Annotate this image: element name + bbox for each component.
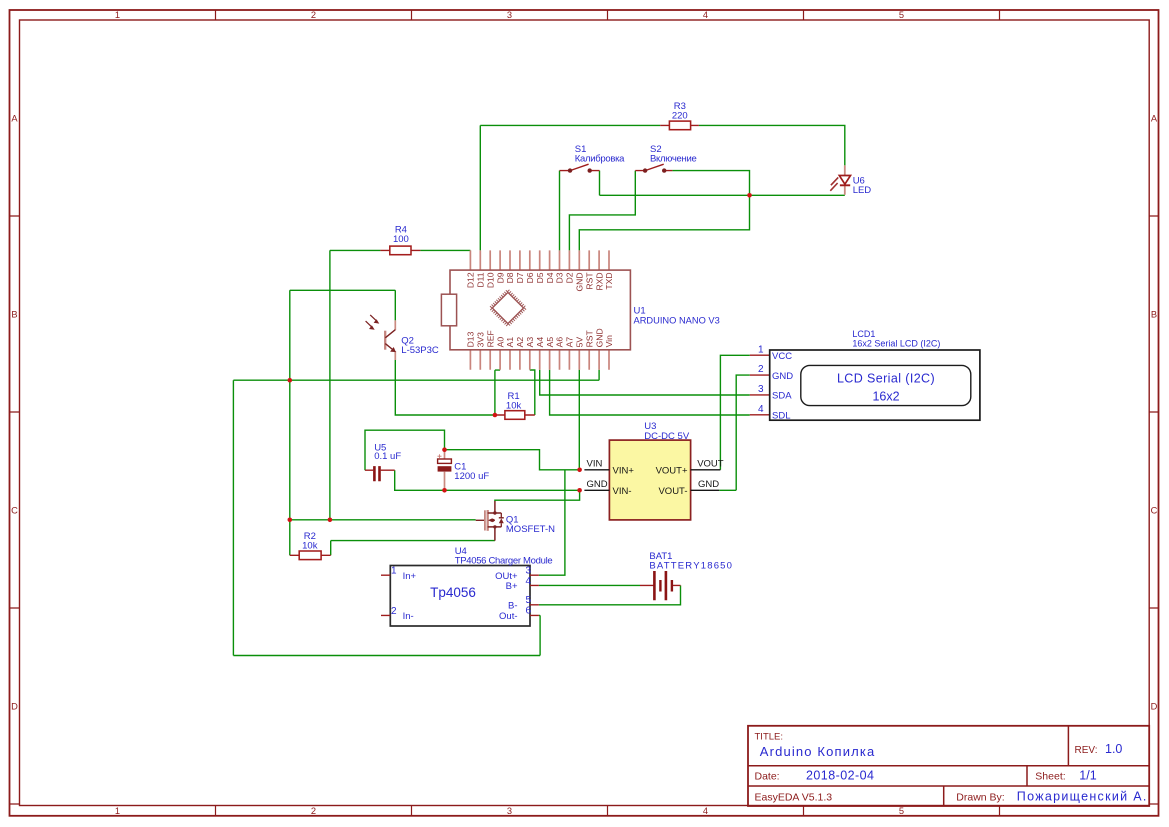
svg-text:3V3: 3V3	[476, 332, 486, 348]
svg-text:3: 3	[758, 384, 764, 395]
svg-text:2018-02-04: 2018-02-04	[806, 769, 874, 783]
svg-text:10k: 10k	[506, 400, 522, 411]
svg-text:MOSFET-N: MOSFET-N	[506, 524, 555, 535]
svg-text:A0: A0	[495, 337, 505, 348]
svg-text:5: 5	[525, 595, 531, 606]
svg-text:A5: A5	[545, 337, 555, 348]
svg-text:D3: D3	[555, 272, 565, 283]
svg-text:1/1: 1/1	[1079, 769, 1096, 783]
svg-text:LCD Serial (I2C): LCD Serial (I2C)	[837, 371, 935, 385]
svg-text:1.0: 1.0	[1105, 742, 1122, 756]
svg-text:Включение: Включение	[650, 153, 696, 164]
svg-text:Arduino Копилка: Arduino Копилка	[760, 744, 876, 759]
svg-text:2: 2	[391, 606, 397, 617]
svg-text:SDA: SDA	[772, 391, 792, 402]
svg-text:SDL: SDL	[772, 410, 790, 421]
svg-text:D12: D12	[466, 272, 476, 288]
svg-text:VIN+: VIN+	[613, 465, 635, 476]
svg-text:A: A	[11, 114, 18, 124]
svg-text:Sheet:: Sheet:	[1035, 771, 1065, 783]
svg-text:1: 1	[115, 806, 120, 816]
svg-text:A6: A6	[555, 337, 565, 348]
svg-text:1: 1	[758, 344, 764, 355]
svg-text:Vin: Vin	[604, 335, 614, 347]
svg-text:5: 5	[899, 806, 904, 816]
svg-text:Drawn By:: Drawn By:	[956, 792, 1004, 804]
svg-text:VIN-: VIN-	[613, 486, 632, 497]
svg-text:D7: D7	[515, 272, 525, 283]
svg-text:2: 2	[311, 806, 316, 816]
svg-text:Калибровка: Калибровка	[575, 153, 625, 164]
svg-text:16x2 Serial LCD (I2C): 16x2 Serial LCD (I2C)	[852, 339, 940, 349]
svg-text:220: 220	[672, 111, 688, 122]
svg-text:VIN: VIN	[587, 459, 603, 470]
svg-text:4: 4	[703, 10, 708, 20]
svg-text:ARDUINO NANO V3: ARDUINO NANO V3	[634, 315, 720, 325]
svg-text:6: 6	[525, 606, 531, 617]
svg-text:D4: D4	[545, 272, 555, 283]
svg-text:4: 4	[758, 404, 764, 415]
svg-text:4: 4	[703, 806, 708, 816]
svg-text:10k: 10k	[302, 540, 318, 551]
svg-text:REF: REF	[485, 330, 495, 347]
svg-text:LED: LED	[853, 185, 872, 196]
svg-text:VCC: VCC	[772, 351, 792, 362]
svg-text:LCD1: LCD1	[852, 329, 875, 339]
svg-text:Date:: Date:	[755, 771, 780, 783]
svg-text:D: D	[1151, 702, 1158, 712]
svg-text:EasyEDA V5.1.3: EasyEDA V5.1.3	[755, 792, 833, 804]
svg-text:In+: In+	[403, 571, 417, 582]
svg-text:L-53P3C: L-53P3C	[401, 345, 439, 356]
svg-text:GND: GND	[772, 371, 793, 382]
svg-text:2: 2	[758, 364, 764, 375]
svg-text:5: 5	[899, 10, 904, 20]
svg-text:A2: A2	[515, 337, 525, 348]
svg-text:VOUT+: VOUT+	[656, 465, 688, 476]
svg-text:A3: A3	[525, 337, 535, 348]
svg-text:D5: D5	[535, 272, 545, 283]
svg-text:1: 1	[391, 566, 397, 577]
svg-text:RXD: RXD	[594, 272, 604, 290]
svg-text:A7: A7	[565, 337, 575, 348]
svg-text:B: B	[1151, 310, 1157, 320]
svg-text:3: 3	[507, 10, 512, 20]
svg-text:VOUT: VOUT	[697, 459, 724, 470]
svg-text:100: 100	[393, 234, 409, 245]
svg-text:D11: D11	[476, 272, 486, 287]
svg-text:C: C	[11, 506, 18, 516]
svg-text:GND: GND	[698, 479, 719, 490]
svg-text:D10: D10	[485, 272, 495, 288]
svg-text:3: 3	[507, 806, 512, 816]
svg-text:A4: A4	[535, 337, 545, 348]
svg-text:REV:: REV:	[1075, 745, 1098, 756]
svg-text:RST: RST	[584, 329, 594, 347]
svg-text:16x2: 16x2	[872, 390, 899, 404]
svg-text:RST: RST	[584, 272, 594, 290]
svg-text:GND: GND	[575, 272, 585, 291]
svg-text:BATTERY18650: BATTERY18650	[649, 561, 733, 572]
svg-text:B-: B-	[508, 600, 518, 611]
svg-text:D: D	[11, 702, 18, 712]
svg-text:In-: In-	[403, 611, 414, 622]
svg-text:VOUT-: VOUT-	[658, 486, 687, 497]
svg-text:2: 2	[311, 10, 316, 20]
svg-text:1200 uF: 1200 uF	[454, 471, 489, 482]
svg-text:C: C	[1151, 506, 1158, 516]
svg-text:A1: A1	[505, 337, 515, 348]
svg-text:5V: 5V	[575, 337, 585, 348]
svg-text:TP4056 Charger Module: TP4056 Charger Module	[455, 556, 553, 567]
svg-text:D9: D9	[495, 272, 505, 283]
svg-text:B+: B+	[506, 581, 518, 592]
svg-text:GND: GND	[587, 479, 608, 490]
svg-text:1: 1	[115, 10, 120, 20]
svg-text:D6: D6	[525, 272, 535, 283]
svg-text:Tp4056: Tp4056	[430, 585, 476, 600]
svg-text:4: 4	[525, 576, 531, 587]
svg-text:Out-: Out-	[499, 611, 517, 622]
svg-text:0.1 uF: 0.1 uF	[374, 451, 401, 462]
svg-text:D2: D2	[565, 272, 575, 283]
svg-text:GND: GND	[594, 328, 604, 347]
svg-text:Пожарищенский А.: Пожарищенский А.	[1017, 790, 1148, 804]
svg-text:TXD: TXD	[604, 272, 614, 289]
svg-text:D13: D13	[466, 331, 476, 347]
svg-text:TITLE:: TITLE:	[755, 731, 784, 742]
svg-text:A: A	[1151, 114, 1158, 124]
svg-text:D8: D8	[505, 272, 515, 283]
svg-text:DC-DC 5V: DC-DC 5V	[644, 431, 690, 442]
svg-text:B: B	[11, 310, 17, 320]
